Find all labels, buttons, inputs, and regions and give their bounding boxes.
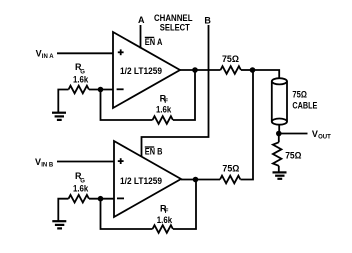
wire termination resistor to ground — [278, 166, 280, 172]
svg-text:OUT: OUT — [318, 135, 331, 141]
label RF2 — [160, 203, 169, 215]
junction dot U1b inverting node — [98, 196, 104, 202]
U1a minus input symbol — [117, 88, 124, 90]
svg-text:V: V — [312, 129, 318, 139]
label RG2 — [75, 171, 85, 185]
svg-text:V: V — [36, 49, 42, 59]
resistor RF2 zigzag — [153, 225, 173, 233]
wire VIN A to U1a + input — [57, 52, 113, 54]
svg-text:V: V — [35, 157, 41, 167]
svg-text:EN B: EN B — [145, 147, 163, 157]
wire RG2 left to ground — [58, 199, 68, 221]
svg-text:IN B: IN B — [41, 162, 54, 168]
svg-text:1/2 LT1259: 1/2 LT1259 — [120, 66, 162, 76]
svg-text:A: A — [138, 15, 145, 25]
svg-text:EN A: EN A — [145, 37, 163, 47]
wire cable bottom to VOUT node — [278, 124, 280, 133]
resistor RF1 zigzag — [153, 116, 173, 124]
wire junction to cable top — [253, 70, 280, 78]
wire U1a output to resistor 75 ohm — [180, 69, 221, 71]
junction dot U1b output node — [193, 177, 199, 183]
overline of EN B — [145, 146, 154, 148]
op-amp U1a (1/2 LT1259) triangle — [113, 32, 180, 108]
ground GND1 (RG1) — [52, 113, 66, 120]
junction dot VOUT node — [276, 131, 282, 137]
overline of EN A — [145, 36, 154, 38]
resistor RG2 zigzag — [69, 195, 89, 203]
wire VOUT node to label — [279, 133, 308, 135]
svg-text:B: B — [204, 16, 211, 26]
svg-text:75Ω: 75Ω — [222, 54, 239, 64]
svg-text:1.6k: 1.6k — [73, 183, 89, 193]
label CHANNEL SELECT — [154, 13, 193, 32]
wire VOUT node to termination resistor — [278, 134, 280, 143]
junction dot cable input node — [250, 67, 256, 73]
wire node A select to EN A pin — [140, 25, 142, 49]
coax cable 75 ohm symbol — [272, 78, 287, 124]
wire feedback U1b left segment — [101, 199, 153, 229]
svg-text:1.6k: 1.6k — [156, 105, 172, 115]
resistor 75 ohm termination zigzag — [273, 142, 282, 166]
resistor 75 ohm output B zigzag — [220, 176, 240, 184]
wire VIN B to U1b + input — [57, 161, 114, 163]
wire resistor B up to cable junction — [241, 70, 254, 180]
wire RG1 left to ground — [58, 90, 68, 113]
svg-text:75Ω: 75Ω — [285, 151, 301, 161]
label VOUT — [312, 129, 331, 141]
svg-text:1.6k: 1.6k — [73, 74, 89, 84]
svg-text:CABLE: CABLE — [292, 100, 317, 110]
svg-text:IN A: IN A — [42, 54, 54, 60]
label VIN A — [36, 49, 55, 61]
svg-text:1.6k: 1.6k — [157, 215, 173, 225]
op-amp U1b (1/2 LT1259) triangle — [114, 141, 181, 217]
U1b minus input symbol — [117, 197, 124, 199]
U1b plus input symbol — [118, 158, 124, 164]
resistor 75 ohm output A zigzag — [221, 66, 241, 74]
junction dot U1a output node — [192, 67, 198, 73]
node B select wire down, across, to EN B pin — [142, 25, 209, 157]
svg-text:75Ω: 75Ω — [292, 89, 307, 99]
svg-text:1/2 LT1259: 1/2 LT1259 — [120, 176, 162, 186]
label 75 ohm CABLE — [292, 89, 317, 110]
label VIN B — [35, 157, 54, 169]
U1a plus input symbol — [118, 49, 124, 55]
wire RG2 to U1b - input — [89, 198, 114, 200]
resistor RG1 zigzag — [69, 86, 89, 94]
ground GND3 (termination) — [273, 172, 287, 178]
wire U1b output to resistor 75 ohm — [181, 179, 220, 181]
wire resistor to cable junction — [241, 69, 253, 71]
wire feedback U1a left segment — [101, 90, 153, 121]
wire feedback U1a right segment to output node — [173, 70, 195, 120]
wire RG1 to U1a - input — [89, 89, 113, 91]
label RG1 — [75, 62, 85, 76]
wire feedback U1b right segment to output node — [173, 180, 196, 229]
ground GND2 (RG2) — [52, 221, 66, 228]
label RF1 — [160, 93, 169, 105]
junction dot U1a inverting node — [98, 87, 104, 93]
svg-text:75Ω: 75Ω — [222, 164, 239, 174]
svg-text:SELECT: SELECT — [160, 22, 190, 32]
